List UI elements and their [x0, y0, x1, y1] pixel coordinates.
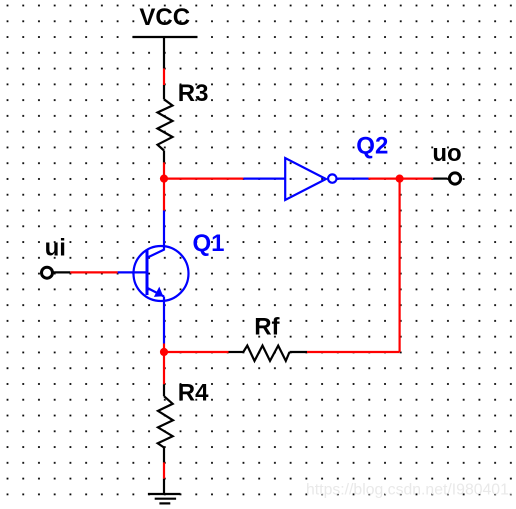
svg-text:https://blog.csdn.net/I980401.: https://blog.csdn.net/I980401. — [306, 482, 513, 499]
svg-text:R3: R3 — [178, 80, 209, 107]
svg-text:Rf: Rf — [254, 313, 280, 340]
svg-text:ui: ui — [45, 234, 66, 261]
svg-text:uo: uo — [432, 140, 461, 167]
svg-text:Q1: Q1 — [193, 230, 225, 257]
svg-text:VCC: VCC — [139, 4, 190, 31]
svg-text:R4: R4 — [178, 379, 209, 406]
svg-text:Q2: Q2 — [356, 133, 388, 160]
